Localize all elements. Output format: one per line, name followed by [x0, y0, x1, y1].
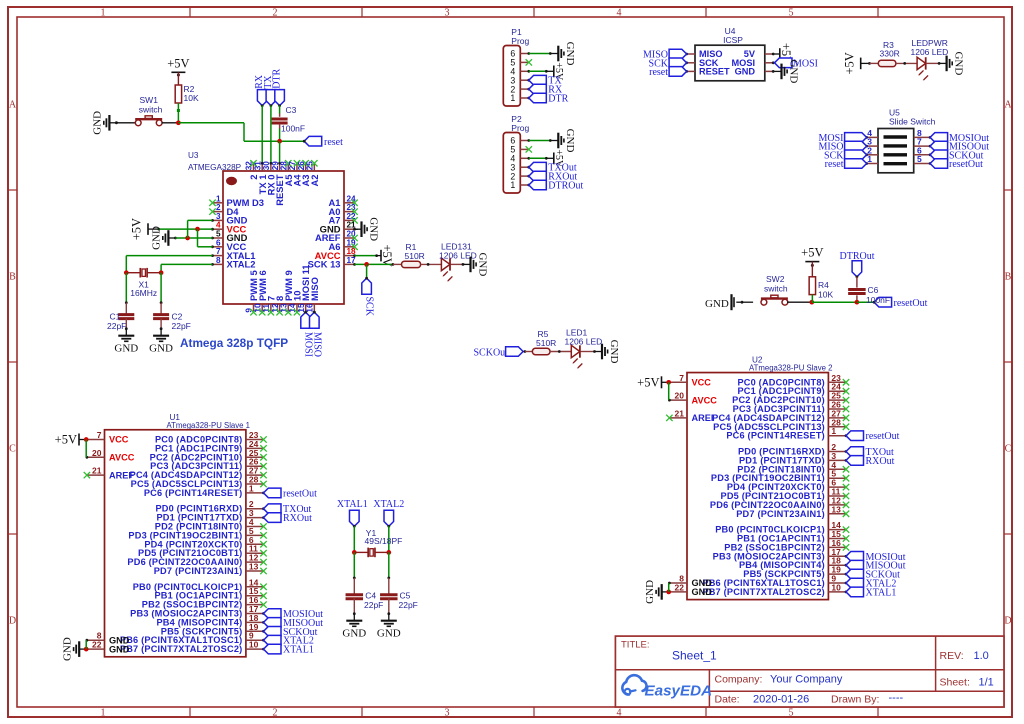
wire SW1 to junction [162, 122, 179, 124]
IC U3 designator [188, 151, 242, 172]
svg-text:SW1: SW1 [140, 95, 159, 105]
power flag +5V (U4) [775, 53, 780, 55]
svg-text:AVCC: AVCC [109, 453, 135, 463]
U2 left pin 21 AREF [666, 408, 717, 423]
U3 left pin 3 GND [211, 212, 247, 226]
port resetOut (SW2) [873, 297, 928, 309]
wire XTAL1 to Y1 [353, 526, 355, 552]
U2 right pin 14 PB0 [715, 520, 846, 535]
svg-text:16: 16 [306, 303, 315, 313]
port XTAL1 (U1) [262, 644, 314, 655]
U3 top pin 28 A5 [279, 160, 293, 186]
svg-text:1: 1 [831, 426, 836, 436]
svg-text:VCC: VCC [692, 378, 712, 388]
wire GND to U3 pin5 [174, 237, 213, 240]
capacitor C6 [848, 290, 866, 294]
connector P2 body [503, 133, 520, 194]
svg-text:100nF: 100nF [866, 295, 890, 305]
svg-text:+5V: +5V [637, 375, 659, 389]
wire U3 XTAL1 to crystal [126, 256, 212, 273]
U5 right pin 7 [914, 137, 932, 148]
svg-text:GND: GND [114, 343, 138, 355]
svg-text:VCC: VCC [109, 435, 129, 445]
wire Y1 to C5 [387, 552, 390, 595]
svg-text:PB7 (PCINT7XTAL2TOSC2): PB7 (PCINT7XTAL2TOSC2) [120, 644, 243, 654]
U2 left pin 20 AVCC [668, 391, 717, 406]
svg-text:REV:: REV: [940, 650, 964, 662]
U1 left pin 22 GND [87, 640, 130, 655]
port RXOut [527, 171, 577, 182]
svg-text:GND: GND [787, 59, 799, 83]
wire R2 to junction [177, 103, 180, 123]
no-connect X U1 PB0 [260, 584, 266, 590]
svg-text:B: B [1005, 272, 1012, 283]
svg-text:+5V: +5V [167, 56, 189, 70]
U3 right pin 20 AREF [315, 230, 358, 244]
op-amp U3 body ATMEGA328P [223, 171, 344, 304]
wire VCC junction to AVCC (U1) [85, 440, 87, 458]
svg-text:A: A [1004, 100, 1012, 111]
U3 left pin 8 XTAL2 [211, 256, 255, 270]
svg-text:Prog: Prog [511, 36, 529, 46]
U1 right pin 24 PC1 [155, 439, 264, 454]
wire P1 pin6 to GND [527, 52, 551, 55]
U3 left pin 5 GND [211, 230, 247, 244]
ground GND (U1 pins 8/22) [61, 637, 86, 661]
svg-text:1: 1 [867, 154, 872, 164]
no-connect X U2 PD4 [843, 484, 849, 490]
svg-text:XTAL1: XTAL1 [283, 645, 314, 656]
junction Y1 left [352, 550, 357, 555]
svg-text:resetOut: resetOut [283, 488, 317, 499]
svg-text:+5V: +5V [130, 218, 144, 240]
svg-text:2: 2 [273, 708, 278, 719]
U3 left pin 4 VCC [211, 221, 246, 235]
ground GND (P2) [551, 129, 576, 153]
svg-text:PC6 (PCINT14RESET): PC6 (PCINT14RESET) [144, 488, 243, 498]
U2 right pin 2 PD0 [738, 442, 846, 457]
crystal Y1 49S/18PF [354, 528, 402, 557]
svg-text:GND: GND [564, 129, 576, 153]
wire P2 pin4 to +5V [527, 157, 553, 160]
power flag +5V (U1) [55, 433, 87, 447]
svg-text:1: 1 [101, 708, 106, 719]
svg-text:GND: GND [149, 343, 173, 355]
U1 right pin 5 PD3 [128, 526, 263, 541]
switch SW2 [761, 274, 788, 305]
IC U2 body ATmega328-PU [687, 373, 828, 600]
wire P1 pin4 to +5V [527, 70, 553, 73]
svg-text:10K: 10K [818, 290, 833, 300]
junction GND (U1) [84, 647, 89, 652]
ground GND (C1) [114, 329, 138, 355]
svg-text:DTR: DTR [272, 68, 283, 88]
wire C4 to ground [353, 599, 356, 616]
resistor R2 [175, 84, 199, 103]
junction VCC (U2) [666, 380, 671, 385]
U3 top pin 29 RESET [271, 161, 285, 206]
switch SW1 [135, 95, 162, 126]
no-connect X U1 PC0 [260, 436, 266, 442]
port SCK (U5) [824, 150, 867, 161]
resistor R3 330R [870, 40, 900, 67]
port MOSIOut (U1) [262, 609, 323, 620]
U1 right pin 25 PC2 [150, 448, 264, 463]
port MISOOut (U1) [262, 618, 323, 629]
svg-text:B: B [9, 272, 16, 283]
U2 right pin 11 PD5 [721, 487, 846, 502]
svg-text:2: 2 [216, 203, 221, 212]
connector P2 designator [511, 114, 529, 133]
port MOSIOut (U5) [930, 133, 989, 144]
U1 right pin 9 PB6 [120, 631, 264, 646]
U1 right pin 1 PC6 [144, 483, 264, 498]
port SCK [362, 277, 375, 317]
wire R4 to junction [811, 295, 813, 303]
U3 right pin 21 GND [320, 221, 356, 235]
svg-text:reset: reset [825, 159, 844, 170]
U4 right pin GND [735, 67, 775, 77]
svg-text:RESET: RESET [699, 67, 730, 77]
power flag +5V (P1) [553, 62, 564, 81]
wire LED1 to ground [581, 350, 596, 353]
port XTAL2 (U2) [845, 578, 897, 589]
U3 right pin 22 A7 [329, 212, 358, 226]
wire junction to resetOut port [857, 301, 874, 303]
U2 right pin 25 PC2 [732, 391, 846, 406]
port DTR [272, 68, 285, 107]
svg-text:31: 31 [253, 161, 262, 171]
port reset (U5) [825, 159, 867, 170]
U2 left pin 22 GND [669, 582, 712, 597]
U3 top pin 30 RX 0 [262, 161, 276, 196]
svg-text:----: ---- [889, 692, 904, 704]
U4 left pin SCK [685, 58, 719, 68]
svg-text:8: 8 [216, 256, 221, 265]
U3 right pin 24 A1 [329, 194, 358, 208]
svg-text:+5V: +5V [380, 244, 394, 266]
U1 left pin 21 AREF [84, 466, 135, 481]
port resetOut (U1) [262, 488, 317, 499]
svg-text:Prog: Prog [511, 123, 529, 133]
IC U1 body ATmega328-PU [105, 430, 246, 657]
no-connect X U1 PC4 [260, 472, 266, 478]
junction reset net at R2 [176, 120, 181, 125]
svg-text:1.0: 1.0 [974, 650, 989, 662]
svg-text:PD7 (PCINT23AIN1): PD7 (PCINT23AIN1) [154, 566, 243, 576]
svg-text:Slide Switch: Slide Switch [889, 117, 936, 127]
svg-text:RXOut: RXOut [866, 456, 895, 467]
no-connect X U2 PC4 [843, 415, 849, 421]
no-connect X U1 PB1 [260, 593, 266, 599]
U5 left pin 3 [865, 137, 878, 148]
svg-text:1: 1 [101, 8, 106, 19]
svg-text:GND: GND [608, 340, 620, 364]
U2 right pin 5 PD3 [711, 469, 846, 484]
U4 right pin 5V [744, 49, 775, 59]
no-connect X U1 PB2 [260, 601, 266, 607]
svg-text:ATmega328-PU Slave 2: ATmega328-PU Slave 2 [749, 364, 833, 373]
U3 bottom pin 10 PWM 6 [253, 270, 267, 315]
U1 left pin 7 VCC [87, 430, 129, 445]
port DTROut [527, 180, 583, 191]
junction C6 resetOut [855, 300, 860, 305]
junction VCC (U1) [84, 437, 89, 442]
power flag +5V (R2) [167, 56, 189, 85]
svg-text:Drawn By:: Drawn By: [831, 694, 879, 706]
svg-text:R4: R4 [818, 280, 829, 290]
svg-text:4: 4 [216, 221, 221, 230]
U3 right pin 17 SCK 13 [308, 256, 356, 270]
port XTAL2 (Y1) [373, 499, 404, 528]
port TX [263, 75, 276, 107]
no-connect X U1 PD4 [260, 541, 266, 547]
U3 bottom pin 16 MISO [306, 277, 320, 314]
no-connect X U2 PB0 [843, 526, 849, 532]
U5 left pin 2 [865, 145, 878, 156]
U3 bottom pin 11 7 [262, 296, 276, 316]
svg-text:AREF: AREF [109, 470, 134, 480]
svg-text:22: 22 [675, 582, 685, 592]
no-connect X U2 PD3 [843, 475, 849, 481]
U1 right pin 17 PB3 [130, 604, 263, 619]
svg-text:GND: GND [952, 51, 964, 75]
svg-text:SCK: SCK [364, 297, 375, 317]
svg-text:22pF: 22pF [172, 321, 191, 331]
wire C3 to junction [279, 125, 281, 142]
svg-text:PD7 (PCINT23AIN1): PD7 (PCINT23AIN1) [736, 509, 825, 519]
wire VCC junction to U3 pin6 [198, 229, 213, 247]
U3 top pin 26 A3 [297, 160, 311, 186]
U2 right pin 26 PC3 [733, 400, 846, 415]
label C6 100nF [866, 285, 890, 305]
U3 left pin 7 XTAL1 [211, 247, 255, 261]
port SCKOut (U2) [845, 569, 901, 580]
P1 pin 2 [510, 84, 528, 94]
U1 left pin 8 GND [86, 631, 130, 646]
svg-text:Sheet_1: Sheet_1 [672, 649, 717, 663]
svg-text:1: 1 [510, 93, 515, 103]
port SCK (U4) [649, 58, 687, 69]
svg-text:GND: GND [735, 67, 756, 77]
wire RX to U3 pin31 [261, 106, 263, 164]
ground GND (P1) [551, 42, 576, 66]
wire R3 to LEDPWR [896, 62, 917, 65]
svg-text:GND: GND [92, 111, 104, 135]
U4 left pin RESET [685, 67, 730, 77]
power flag +5V (U3 AVCC) [380, 244, 394, 266]
port MISO (U4) [643, 49, 687, 60]
U1 right pin 4 PD2 [155, 517, 264, 532]
P2 pin 2 [510, 171, 528, 181]
wire junction to SCK port [366, 264, 368, 278]
U3 top pin 27 A4 [288, 160, 302, 186]
svg-text:1/1: 1/1 [979, 677, 994, 689]
no-connect X U1 PD7 [260, 568, 266, 574]
svg-text:MISO: MISO [309, 277, 320, 301]
U2 right pin 27 PC4 [712, 408, 846, 423]
wire R5 to LED1 [550, 350, 571, 353]
P1 pin 6 [510, 49, 528, 59]
port MISO (U3) [310, 311, 323, 357]
svg-text:RXOut: RXOut [283, 513, 312, 524]
svg-text:1206 LED: 1206 LED [911, 47, 949, 57]
U1 right pin 11 PD5 [138, 544, 263, 559]
wire GND junction to U3 pin3 [188, 220, 213, 238]
no-connect X U2 PC0 [843, 379, 849, 385]
no-connect X U2 PD2 [843, 466, 849, 472]
U2 right pin 6 PD4 [727, 478, 846, 493]
svg-text:resetOut: resetOut [866, 431, 900, 442]
svg-text:switch: switch [139, 105, 163, 115]
ground GND (U2 pins 8/22) [644, 580, 669, 604]
no-connect X U2 PC3 [843, 406, 849, 412]
junction reset/C3 [277, 139, 282, 144]
port MOSI (U4) [775, 58, 819, 69]
U5 left pin 1 [865, 154, 878, 165]
svg-text:C1: C1 [110, 312, 121, 322]
svg-text:A: A [9, 100, 17, 111]
wire +5V to U3 pin4 [159, 228, 213, 230]
svg-text:+5V: +5V [55, 433, 77, 447]
svg-text:D: D [1004, 616, 1011, 627]
P2 pin 4 [510, 154, 528, 164]
svg-text:Your Company: Your Company [770, 674, 843, 686]
power flag +5V (U3 VCC) [130, 218, 161, 240]
svg-text:TITLE:: TITLE: [621, 640, 650, 651]
U2 right pin 19 PB5 [743, 565, 846, 580]
wire GND junction to pin8 (U2) [668, 583, 670, 592]
svg-text:20: 20 [675, 391, 685, 401]
svg-text:C6: C6 [868, 285, 879, 295]
U1 right pin 28 PC5 [131, 475, 264, 490]
svg-text:21: 21 [92, 466, 102, 476]
svg-text:DTROut: DTROut [548, 181, 583, 192]
U1 left pin 20 AVCC [86, 448, 135, 463]
capacitor C2 22pF [153, 312, 191, 332]
svg-text:resetOut: resetOut [949, 159, 983, 170]
svg-text:22pF: 22pF [399, 600, 418, 610]
U3 left pin 2 D4 [209, 203, 239, 217]
port DTROut [840, 251, 875, 278]
wire C1 to ground [125, 318, 128, 330]
junction SCK [364, 262, 369, 267]
no-connect X U2 PB2 [843, 544, 849, 550]
U3 bottom pin 13 PWM 9 [279, 270, 293, 315]
port MISO (U5) [818, 141, 866, 152]
svg-text:PB7 (PCINT7XTAL2TOSC2): PB7 (PCINT7XTAL2TOSC2) [702, 587, 825, 597]
title block Company [715, 674, 843, 686]
U2 right pin 16 PB2 [724, 538, 846, 553]
wire SW2 to junction [787, 301, 812, 303]
U4 right pin MOSI [732, 58, 775, 68]
no-connect X U1 PD3 [260, 532, 266, 538]
junction Y1 right [386, 550, 391, 555]
power flag +5V (R4) [801, 246, 823, 277]
U1 right pin 23 PC0 [155, 430, 264, 445]
port XTAL2 (U1) [262, 635, 314, 646]
U2 right pin 23 PC0 [737, 373, 846, 388]
U5 right pin 6 [914, 145, 932, 156]
svg-text:Company:: Company: [715, 674, 763, 686]
svg-text:1: 1 [249, 483, 254, 493]
ground GND (C4) [342, 614, 366, 640]
svg-text:XTAL2: XTAL2 [227, 259, 256, 270]
U2 right pin 18 PB4 [739, 556, 846, 571]
svg-text:ATmega328-PU Slave 1: ATmega328-PU Slave 1 [167, 421, 251, 430]
wire junction to U3 RESET pin [279, 141, 281, 163]
svg-text:XTAL2: XTAL2 [373, 499, 404, 510]
svg-text:16MHz: 16MHz [130, 288, 157, 298]
LED LED131 1206 LED [439, 242, 477, 283]
svg-text:7: 7 [679, 373, 684, 383]
svg-text:Atmega 328p TQFP: Atmega 328p TQFP [180, 336, 288, 350]
port TXOut (U1) [262, 504, 311, 515]
U3 bottom pin 12 8 [271, 296, 285, 316]
U1 right pin 6 PD4 [144, 535, 263, 550]
junction VCC net [195, 227, 200, 232]
frame column numbers bottom [101, 708, 794, 719]
svg-text:GND: GND [109, 644, 130, 654]
svg-text:1206 LED: 1206 LED [565, 336, 603, 346]
title block Sheet [940, 677, 994, 689]
frame column numbers top [101, 8, 794, 19]
capacitor C4 22pF [346, 591, 384, 610]
U2 left pin 7 VCC [669, 373, 711, 388]
junction crystal left [124, 270, 129, 275]
junction GND (U2) [666, 590, 671, 595]
U3 bottom pin 15 MOSI 11 [297, 265, 311, 314]
svg-text:XTAL1: XTAL1 [866, 587, 897, 598]
svg-text:1: 1 [510, 180, 515, 190]
P1 pin 4 [510, 67, 528, 77]
ground GND (U3 pin21) [355, 217, 380, 241]
U2 right pin 28 PC5 [713, 417, 846, 432]
wire reset net horizontal [178, 123, 304, 141]
no-connect X U2 PC2 [843, 397, 849, 403]
no-connect X U2 PD6 [843, 502, 849, 508]
title block TITLE [621, 640, 717, 663]
U1 right pin 18 PB4 [156, 613, 263, 628]
U2 right pin 12 PD6 [710, 495, 846, 510]
svg-text:10: 10 [831, 582, 841, 592]
junction crystal right [159, 270, 164, 275]
no-connect X P1 pin5 [526, 59, 532, 65]
wire R1 to LED131 [421, 263, 442, 266]
wire TX to U3 pin30 [270, 106, 272, 164]
no-connect X U2 PD7 [843, 511, 849, 517]
ground GND (LED1) [595, 340, 620, 364]
IC U4 designator [723, 26, 743, 45]
port TXOut (U2) [845, 447, 894, 458]
resistor R1 510R [392, 242, 425, 268]
capacitor C1 22pF [107, 312, 134, 332]
svg-text:20: 20 [92, 448, 102, 458]
U2 right pin 4 PD2 [737, 460, 846, 475]
capacitor C3 [272, 105, 306, 134]
svg-text:ICSP: ICSP [723, 35, 743, 45]
U5 right pin 5 [914, 154, 932, 165]
port SCKOut (U1) [262, 627, 318, 638]
U2 right pin 3 PD1 [739, 451, 846, 466]
svg-text:2: 2 [273, 8, 278, 19]
svg-text:3: 3 [216, 212, 221, 221]
svg-text:C2: C2 [172, 312, 183, 322]
svg-text:GND: GND [377, 628, 401, 640]
svg-text:GND: GND [367, 217, 379, 241]
svg-text:5: 5 [789, 708, 794, 719]
svg-text:GND: GND [705, 298, 729, 310]
